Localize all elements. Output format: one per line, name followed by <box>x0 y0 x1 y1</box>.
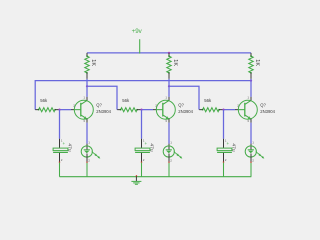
capacitor C1 47u <box>53 139 73 163</box>
svg-text:1K: 1K <box>172 59 178 66</box>
resistor R1 1K (collector load, stage 1) <box>85 53 96 79</box>
wire base net stage 2 <box>142 109 154 111</box>
wire node Q1-collector to R5 feed <box>87 86 117 109</box>
svg-text:+9v: +9v <box>132 28 143 35</box>
wire capacitor to ground rail stage 3 <box>223 163 225 177</box>
wire +9V top rail <box>87 52 251 54</box>
junction feed at Q1 collector <box>86 85 88 87</box>
wire emitter to LED stage 3 <box>250 123 252 144</box>
svg-text:47u: 47u <box>149 143 155 151</box>
transistor Q1 2N3904 <box>71 96 112 123</box>
svg-text:47u: 47u <box>231 143 237 151</box>
wire LED to ground rail stage 1 <box>86 163 88 177</box>
wire LED to ground rail stage 3 <box>250 163 252 177</box>
wire base node down to capacitor stage 3 <box>223 110 225 139</box>
svg-text:2N3904: 2N3904 <box>178 109 193 114</box>
resistor R6 56k (base, stage 3) <box>199 98 223 112</box>
svg-text:56k: 56k <box>204 98 212 103</box>
wire LED to ground rail stage 2 <box>168 163 170 177</box>
junction feed at Q2 collector <box>168 85 170 87</box>
svg-text:47u: 47u <box>67 143 73 151</box>
svg-text:56k: 56k <box>40 98 48 103</box>
svg-text:56k: 56k <box>122 98 130 103</box>
junction base/cap node stage 2 <box>140 109 142 111</box>
svg-text:Q?: Q? <box>178 102 184 107</box>
junction base/cap node stage 1 <box>58 109 60 111</box>
wire node Q3-collector to R4 feed (long feedback) <box>35 81 251 110</box>
LED D3 <box>245 140 264 163</box>
capacitor C3 47u <box>217 139 237 163</box>
svg-text:+: + <box>227 141 230 146</box>
wire capacitor to ground rail stage 2 <box>141 163 143 177</box>
junction feedback at Q3 collector <box>250 80 252 82</box>
resistor R2 1K (collector load, stage 2) <box>167 53 178 79</box>
resistor R4 56k (base, stage 1) <box>35 98 59 112</box>
svg-text:+: + <box>145 141 148 146</box>
svg-text:Q?: Q? <box>96 102 102 107</box>
junction R collector 2 on rail <box>168 52 170 54</box>
transistor Q2 2N3904 <box>153 96 194 123</box>
svg-text:2N3904: 2N3904 <box>260 109 275 114</box>
junction base/cap node stage 3 <box>222 109 224 111</box>
svg-text:Q?: Q? <box>260 102 266 107</box>
svg-text:1K: 1K <box>90 59 96 66</box>
resistor R5 56k (base, stage 2) <box>117 98 141 112</box>
capacitor C2 47u <box>135 139 155 163</box>
transistor Q3 2N3904 <box>235 96 276 123</box>
power symbol +9v <box>132 28 143 54</box>
wire base node down to capacitor stage 1 <box>59 110 61 139</box>
wire collector net stage 1 <box>86 79 88 97</box>
wire base net stage 3 <box>224 109 236 111</box>
ground <box>131 175 141 184</box>
wire emitter to LED stage 1 <box>86 123 88 144</box>
wire base net stage 1 <box>60 109 72 111</box>
LED D1 <box>81 140 100 163</box>
resistor R3 1K (collector load, stage 3) <box>249 53 260 79</box>
wire ground rail <box>60 176 252 178</box>
wire base node down to capacitor stage 2 <box>141 110 143 139</box>
wire node Q2-collector to R6 feed <box>169 86 199 109</box>
LED D2 <box>163 140 182 163</box>
svg-text:+: + <box>63 141 66 146</box>
wire collector net stage 2 <box>168 79 170 97</box>
svg-text:2N3904: 2N3904 <box>96 109 111 114</box>
wire capacitor to ground rail stage 1 <box>59 163 61 177</box>
wire collector net stage 3 <box>250 79 252 97</box>
wire emitter to LED stage 2 <box>168 123 170 144</box>
svg-text:1K: 1K <box>254 59 260 66</box>
